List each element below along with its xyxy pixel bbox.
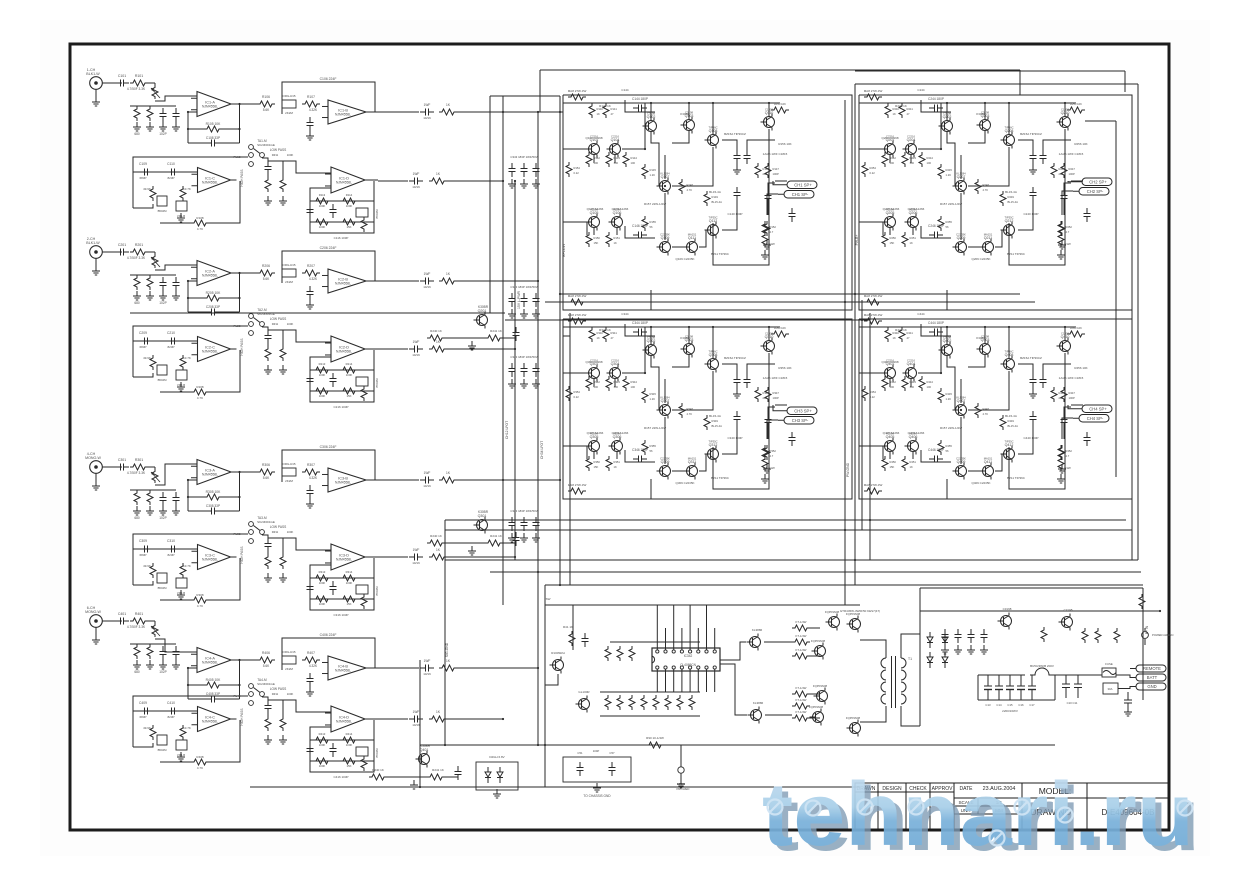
wire box rail2 (310, 760, 374, 762)
resistor R146 (755, 163, 761, 178)
svg-text:Q310: Q310 (765, 335, 774, 339)
svg-text:4.7: 4.7 (1066, 454, 1070, 458)
svg-text:C344 180P: C344 180P (632, 321, 648, 325)
ground (279, 365, 287, 374)
svg-text:MA8 27W-3W: MA8 27W-3W (864, 294, 883, 298)
wire box rail2 (310, 221, 374, 223)
transistor Q206 (905, 211, 919, 231)
wire (188, 496, 204, 498)
svg-text:C308 33P: C308 33P (206, 504, 220, 508)
wire (882, 222, 884, 235)
ground (1057, 474, 1065, 483)
svg-text:Q209 C2235K: Q209 C2235K (971, 257, 990, 261)
resistor (series) CH4 LP out (439, 665, 457, 671)
svg-text:SK23DD1GE: SK23DD1GE (257, 520, 275, 524)
svg-text:10/16: 10/16 (412, 185, 420, 189)
svg-text:49.9K: 49.9K (143, 726, 151, 730)
wire IC4-A feedback right (239, 660, 241, 699)
svg-text:R155: R155 (650, 220, 657, 224)
transistor Q310 (761, 335, 775, 355)
capacitor C201 (115, 249, 129, 256)
svg-text:Q304: Q304 (611, 362, 620, 366)
wire (947, 356, 955, 410)
svg-text:C2216: C2216 (907, 135, 915, 139)
svg-text:1K: 1K (910, 465, 913, 469)
capacitor (psu filter) (981, 629, 988, 643)
wire (220, 698, 240, 700)
svg-text:5.6K: 5.6K (263, 277, 270, 281)
bus wire (445, 519, 1126, 521)
ground (159, 122, 167, 131)
svg-text:Q111: Q111 (688, 236, 696, 240)
svg-text:C309: C309 (139, 539, 147, 543)
wire (149, 643, 151, 645)
capacitor C208 (206, 309, 220, 316)
capacitor C346 box (625, 450, 655, 462)
transistor Q110 (761, 111, 775, 131)
bus wire vertical (569, 313, 571, 585)
svg-text:MA151: MA151 (984, 457, 993, 461)
svg-text:100K: 100K (287, 153, 294, 157)
svg-text:C306 224F: C306 224F (320, 445, 337, 449)
resistor R211 (265, 346, 271, 361)
svg-text:B+ IN: B+ IN (1145, 625, 1149, 634)
wire (672, 147, 713, 186)
resistor (series) CH1 LP out (439, 109, 457, 115)
svg-text:NJM4558L: NJM4558L (202, 181, 218, 185)
wire inverting input (188, 280, 197, 282)
resistor R441 (899, 327, 905, 342)
transistor Q311 (684, 460, 698, 480)
capacitor (series) CH2 HP out (409, 346, 423, 353)
capacitor C209 (139, 338, 153, 345)
bus wire (855, 70, 1125, 72)
potentiometer (151, 254, 160, 268)
resistor R107 (302, 101, 320, 107)
svg-text:SK23DD1GE: SK23DD1GE (257, 682, 275, 686)
wire switch to branch (262, 697, 268, 700)
svg-text:R307: R307 (307, 463, 315, 467)
svg-text:R107: R107 (307, 95, 315, 99)
wire (136, 105, 138, 107)
resistor R143 (606, 152, 612, 167)
svg-text:C316 103P: C316 103P (333, 613, 348, 617)
svg-text:C444 180P: C444 180P (928, 321, 944, 325)
capacitor C244 (929, 105, 943, 112)
wire (231, 103, 258, 105)
resistor R214 (340, 367, 358, 373)
svg-text:Q301 C3198: Q301 C3198 (585, 360, 602, 364)
svg-text:MA151: MA151 (984, 233, 993, 237)
capacitor C146 (633, 232, 647, 239)
capacitor C347b (789, 432, 796, 446)
ground (146, 122, 154, 131)
svg-text:100: 100 (910, 385, 915, 389)
svg-text:MA8 27W-3W: MA8 27W-3W (568, 89, 587, 93)
resistor R209 (150, 355, 156, 370)
svg-text:102P: 102P (159, 670, 166, 674)
svg-text:NJM4558L: NJM4558L (335, 113, 351, 117)
svg-text:Q406: Q406 (909, 435, 918, 439)
resistor R409 (150, 725, 156, 740)
wire box rail2 (310, 598, 374, 600)
svg-text:FQPF9N08: FQPF9N08 (811, 639, 826, 643)
wire (1018, 140, 1033, 150)
ground (733, 389, 741, 398)
svg-text:CH1 SP-: CH1 SP- (792, 192, 809, 197)
svg-text:R455: R455 (946, 444, 953, 448)
svg-text:R144: R144 (631, 156, 638, 160)
wire rail top (859, 326, 1076, 328)
transistor Q408 (1001, 353, 1015, 373)
capacitor C312 (265, 538, 272, 552)
wire (859, 372, 883, 374)
svg-text:R414: R414 (346, 732, 353, 736)
resistor R248 (975, 179, 981, 194)
wire PSU top rail (545, 604, 860, 606)
svg-text:MA151: MA151 (688, 457, 697, 461)
capacitor C51 (577, 762, 584, 776)
resistor R449 (1000, 415, 1006, 430)
wire (960, 417, 962, 464)
svg-text:683P: 683P (139, 345, 146, 349)
svg-text:100: 100 (927, 385, 932, 389)
capacitor C112 (265, 161, 272, 175)
svg-text:683P: 683P (139, 553, 146, 557)
resistor R36 (osc array) (677, 695, 683, 710)
svg-text:Q311: Q311 (688, 460, 697, 464)
wire (1018, 201, 1033, 230)
svg-text:C3198: C3198 (1003, 607, 1012, 611)
connector CH4 SP+ (1076, 405, 1112, 413)
resistor R113 (313, 198, 331, 204)
svg-text:1K: 1K (614, 465, 617, 469)
svg-text:B504M: B504M (375, 209, 379, 219)
svg-text:Q308: Q308 (709, 353, 718, 357)
svg-text:KT-1/4W: KT-1/4W (796, 634, 807, 638)
capacitor (series) CH1 LP out (420, 109, 434, 116)
svg-text:KL1284: KL1284 (956, 172, 966, 176)
resistor (series) CH4 HP out (429, 716, 447, 722)
ground (279, 735, 287, 744)
wire feedback (209, 181, 240, 223)
svg-text:CH2 SP-: CH2 SP- (1087, 189, 1104, 194)
wire (148, 251, 155, 253)
bus wire vertical (1131, 285, 1133, 560)
svg-text:1.2K: 1.2K (946, 397, 952, 401)
svg-text:C2216: C2216 (907, 359, 915, 363)
bus wire vertical (854, 84, 856, 585)
wire (775, 404, 787, 406)
svg-text:R208: R208 (196, 385, 204, 389)
electrolytic capacitor C13 (987, 675, 989, 686)
resistor R246 (1051, 163, 1057, 178)
svg-text:R90 10-1/4W: R90 10-1/4W (646, 736, 664, 740)
ground (508, 379, 516, 388)
wire (650, 103, 652, 120)
wire (699, 454, 706, 471)
resistor R305 (204, 494, 222, 500)
capacitor C309 (139, 546, 153, 553)
MOSFET Q28 FQPF9N08 (810, 709, 824, 726)
svg-text:C206 224F: C206 224F (320, 246, 337, 250)
svg-text:TIP36C: TIP36C (708, 350, 717, 354)
wire feedback left (187, 112, 189, 143)
wire (133, 373, 153, 377)
wire (188, 297, 204, 299)
svg-text:1WF: 1WF (413, 340, 420, 344)
wire (387, 776, 427, 778)
resistor R254 (862, 162, 868, 177)
wire (148, 620, 155, 622)
trimmer VR3-B (282, 468, 296, 476)
svg-text:NJM4558L: NJM4558L (336, 350, 352, 354)
capacitor (trunk filter) (509, 363, 516, 377)
svg-text:102P: 102P (159, 301, 166, 305)
wire (918, 327, 941, 373)
ground (172, 291, 180, 300)
wire attenuator shunt rail (130, 105, 176, 107)
wire CH2 LP out (378, 280, 419, 282)
svg-text:R156 10K: R156 10K (778, 142, 791, 146)
resistor R112 (280, 177, 286, 192)
svg-text:NJM4558L: NJM4558L (336, 558, 352, 562)
wire (712, 103, 714, 134)
svg-text:49.9K: 49.9K (143, 564, 151, 568)
svg-text:KL1284: KL1284 (660, 396, 670, 400)
wire (445, 542, 485, 544)
wire (672, 371, 713, 410)
wire attenuator shunt rail (130, 643, 176, 645)
svg-text:10/16: 10/16 (423, 116, 431, 120)
wire (586, 222, 588, 235)
svg-text:C340 100P: C340 100P (727, 436, 742, 440)
svg-text:0.22: 0.22 (574, 171, 580, 175)
transistor Q307 (657, 399, 671, 419)
svg-text:4.7/50F 3.3K: 4.7/50F 3.3K (127, 625, 146, 629)
svg-text:TIP35C: TIP35C (708, 440, 717, 444)
wire (664, 417, 666, 464)
wire HP bottom (160, 599, 193, 601)
svg-text:TIP36C: TIP36C (708, 126, 717, 130)
wire secondary bus (919, 588, 921, 726)
wire (722, 201, 737, 230)
svg-text:R142 1K: R142 1K (599, 104, 611, 108)
capacitor near Q401 (455, 766, 462, 780)
transistor Q309 (657, 460, 671, 480)
transistor Q31 (1059, 614, 1073, 631)
svg-text:C201: C201 (118, 243, 126, 247)
resistor R201 (130, 249, 148, 255)
ground (763, 240, 771, 249)
resistor R454 (862, 386, 868, 401)
resistor R247 (1061, 163, 1067, 178)
trimmer VR1-B (282, 100, 296, 108)
wire (650, 327, 652, 344)
wire (1064, 407, 1071, 414)
capacitor (series) CH1 HP out (409, 178, 423, 185)
op-amp IC3-D (325, 544, 371, 570)
resistor R32 (osc array) (629, 695, 635, 710)
svg-text:R355: R355 (650, 444, 657, 448)
wire (1043, 140, 1071, 150)
wire (563, 445, 587, 447)
wire (650, 327, 652, 344)
svg-text:1WF: 1WF (424, 103, 431, 107)
wire IC4-B output (366, 667, 378, 669)
wire (767, 204, 769, 215)
resistor R210 (180, 355, 186, 370)
resistor R29 (629, 646, 635, 661)
resistor (series) CH1 HP out (429, 178, 447, 184)
svg-text:13.7K: 13.7K (183, 564, 191, 568)
resistor R442 (882, 376, 888, 391)
connector REMOTE (1130, 665, 1166, 672)
wire to SP+ (1068, 405, 1076, 409)
resistor near Q401 (369, 774, 387, 780)
svg-text:Q401 C3198: Q401 C3198 (881, 360, 898, 364)
resistor R114 (340, 198, 358, 204)
capacitor C10 (1065, 675, 1067, 684)
transformer T1 (881, 650, 912, 712)
resistor R212 (280, 346, 286, 361)
wire (775, 180, 787, 182)
svg-text:Q412: Q412 (1005, 443, 1014, 447)
wire (946, 479, 948, 499)
capacitor C341 (744, 374, 751, 388)
svg-text:R252: R252 (1066, 225, 1073, 229)
svg-text:4.7K: 4.7K (197, 227, 203, 231)
svg-text:100K: 100K (346, 373, 353, 377)
svg-text:K30BR: K30BR (976, 112, 986, 116)
transistor Q208 (1001, 129, 1015, 149)
svg-text:BL15-4A: BL15-4A (1008, 200, 1019, 204)
wire (136, 489, 138, 491)
resistor R150 (586, 232, 592, 247)
capacitor C107 (307, 117, 314, 131)
ground (146, 291, 154, 300)
svg-text:C2235K: C2235K (660, 457, 670, 461)
svg-text:R108: R108 (196, 216, 204, 220)
svg-text:FQPF9N08: FQPF9N08 (813, 684, 828, 688)
ground (279, 196, 287, 205)
svg-text:NJM4558L: NJM4558L (202, 350, 218, 354)
svg-text:R154: R154 (574, 166, 581, 170)
capacitor (trunk filter) (509, 293, 516, 307)
input jack (90, 77, 109, 97)
wire (889, 379, 891, 387)
svg-text:C106 224F: C106 224F (320, 77, 337, 81)
resistor (psu) (1114, 628, 1120, 643)
resistor R413 (313, 737, 331, 743)
svg-text:0.22: 0.22 (574, 395, 580, 399)
svg-text:Q312: Q312 (709, 443, 718, 447)
capacitor C147 (765, 190, 772, 204)
svg-text:ORG-R-B: ORG-R-B (283, 462, 296, 466)
input jack (90, 615, 109, 635)
svg-text:NJM4558L: NJM4558L (335, 282, 351, 286)
resistor R314 (340, 575, 358, 581)
transistor Q202 (939, 115, 953, 135)
op-amp IC3-C (192, 545, 237, 570)
ground (177, 213, 185, 222)
wire (722, 140, 737, 150)
op-amp IC1-B (322, 100, 372, 124)
svg-text:POWER-GREEN: POWER-GREEN (1152, 633, 1173, 637)
svg-text:PW-GND: PW-GND (846, 462, 850, 477)
svg-text:R100SRH: R100SRH (551, 651, 565, 655)
svg-text:KT-1/4W: KT-1/4W (796, 686, 807, 690)
svg-text:R240 1K: R240 1K (430, 534, 442, 538)
wire (1018, 425, 1033, 454)
capacitor C409 (139, 708, 153, 715)
transistor Q111 (684, 236, 698, 256)
wire (889, 452, 891, 459)
svg-text:680: 680 (134, 670, 140, 674)
wire (672, 131, 689, 143)
resistor R105 (204, 126, 222, 132)
transistor Q306 (609, 435, 623, 455)
resistor R315 (313, 596, 331, 602)
svg-text:R408: R408 (196, 755, 204, 759)
svg-text:15K: 15K (347, 394, 352, 398)
svg-text:PL25: PL25 (233, 324, 240, 328)
resistor R101 (130, 80, 148, 86)
ground (133, 122, 141, 131)
capacitor C246 (929, 232, 943, 239)
input select switch SW3 (249, 522, 254, 527)
svg-text:5.6K: 5.6K (263, 664, 270, 668)
wire (946, 327, 948, 344)
svg-text:C416 103P: C416 103P (333, 775, 348, 779)
svg-text:1K: 1K (614, 241, 617, 245)
wire to SP- (767, 420, 778, 439)
wire (968, 470, 981, 472)
bus wire (490, 571, 1141, 573)
wire block A input (560, 111, 563, 113)
wire feedback (209, 350, 240, 392)
svg-text:R247: R247 (1069, 167, 1076, 171)
ground (520, 533, 528, 542)
resistor R108 (191, 220, 209, 226)
capacitor (psu filter) (942, 629, 949, 643)
ground (172, 660, 180, 669)
bus wire vertical (861, 300, 863, 530)
MOSFET Q27 FQPF9N08 (814, 688, 828, 705)
svg-text:Q309 C2235K: Q309 C2235K (675, 481, 694, 485)
electrolytic capacitor C14 (998, 675, 1000, 686)
svg-text:Q211: Q211 (984, 236, 993, 240)
title block texts (857, 786, 1155, 817)
wire CH1 LP out (378, 111, 419, 113)
LED1 power indicator (1142, 632, 1149, 639)
capacitor C440 (1030, 374, 1037, 388)
svg-text:100P: 100P (773, 172, 779, 176)
svg-text:R351: R351 (614, 460, 621, 464)
title block table (855, 783, 1168, 830)
svg-text:13.7K: 13.7K (183, 187, 191, 191)
svg-text:LOW PASS: LOW PASS (270, 525, 286, 529)
resistor R313 (313, 575, 331, 581)
electrolytic capacitor C17 (1031, 675, 1033, 686)
buffer transistor Q301 (474, 514, 488, 534)
capacitor C312b (330, 581, 337, 595)
resistor R353 (771, 331, 789, 337)
capacitor C402 (160, 646, 167, 660)
trimmer VR3-B1 (157, 573, 167, 583)
wire to IC3-D (283, 538, 331, 550)
wire (503, 338, 516, 341)
